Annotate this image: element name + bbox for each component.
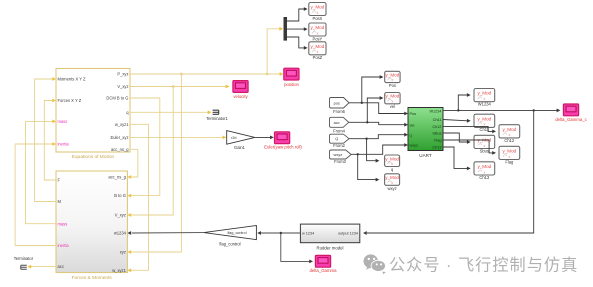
svg-text:Rudder model: Rudder model <box>317 246 344 251</box>
svg-text:acc: acc <box>334 120 340 125</box>
wire demux out 1 <box>287 9 305 21</box>
subsystem Rudder model <box>300 224 359 243</box>
svg-text:y_Mod: y_Mod <box>477 116 491 121</box>
subsystem UART <box>408 108 443 151</box>
wire acc output to Terminator <box>31 266 56 268</box>
port arrow w1234 into Forces &amp; Moments <box>127 231 131 235</box>
svg-text:Gain1: Gain1 <box>234 145 246 150</box>
to-workspace W1234 <box>474 89 495 102</box>
svg-text:y_Mod: y_Mod <box>385 175 399 180</box>
svg-text:w_xyz1: w_xyz1 <box>115 122 129 127</box>
svg-text:公众号 · 飞行控制与仿真: 公众号 · 飞行控制与仿真 <box>389 256 578 274</box>
svg-text:x: x <box>391 162 393 166</box>
scope delta_Gamma <box>315 255 330 267</box>
to-workspace wxyz <box>385 174 400 186</box>
svg-text:Pos: Pos <box>410 112 417 116</box>
svg-text:Forces X Y Z: Forces X Y Z <box>58 98 82 103</box>
svg-text:acc: acc <box>58 264 64 269</box>
to-workspace Pos <box>385 71 400 82</box>
wire Ch13 <box>443 147 468 168</box>
port arrow into Forces &amp; Moments <box>127 213 131 217</box>
wire F output to Forces XYZ input <box>44 101 56 181</box>
svg-text:output 1234: output 1234 <box>338 232 358 236</box>
svg-text:y_Mod: y_Mod <box>385 156 399 161</box>
svg-text:Euler_xyz: Euler_xyz <box>111 135 129 140</box>
wire Euler_xyz to Gain1 <box>130 136 223 138</box>
to-workspace PosZ <box>309 42 326 55</box>
svg-text:Ch12: Ch12 <box>504 138 515 143</box>
svg-text:w1234: w1234 <box>114 231 127 236</box>
wire inertia <box>15 144 56 246</box>
wire Ch11 <box>443 120 468 121</box>
svg-text:position: position <box>284 82 299 87</box>
svg-text:Pos: Pos <box>389 83 396 88</box>
svg-text:V_xyz: V_xyz <box>115 213 126 218</box>
svg-text:y_Mod: y_Mod <box>386 73 400 78</box>
svg-text:Ch11: Ch11 <box>433 118 442 122</box>
svg-text:From2: From2 <box>333 143 346 148</box>
svg-text:Ch12: Ch12 <box>432 125 441 129</box>
svg-text:Ch13: Ch13 <box>479 175 490 180</box>
from tag wxyz <box>330 150 352 159</box>
wire Flag <box>443 140 493 153</box>
svg-text:w_xyz1: w_xyz1 <box>112 268 126 273</box>
to-workspace Ch12 <box>499 125 520 138</box>
svg-text:y_Mod: y_Mod <box>311 25 325 30</box>
svg-text:x: x <box>391 181 393 185</box>
from tag Q <box>330 134 350 143</box>
wire DCM B to G feedback <box>130 98 160 196</box>
svg-text:flag_control: flag_control <box>227 231 246 235</box>
svg-text:Forces & Moments: Forces & Moments <box>72 275 113 281</box>
svg-text:velocity: velocity <box>233 94 248 99</box>
svg-text:y_Mod: y_Mod <box>477 164 491 169</box>
to-workspace Ch13 <box>474 162 495 175</box>
svg-text:wxyz: wxyz <box>410 144 419 148</box>
svg-text:y_Mod: y_Mod <box>386 94 400 99</box>
svg-text:x: x <box>483 170 485 174</box>
watermark wechat logo <box>364 254 386 274</box>
sink Terminator <box>21 265 27 269</box>
port arrow into Forces &amp; Moments <box>127 268 131 272</box>
wire wxyz to UART and wxyz workspace <box>351 145 405 154</box>
to-workspace PosX <box>309 3 326 16</box>
subsystem Forces &amp; Moments (flipped) <box>56 171 127 273</box>
svg-text:delta_Gamma_c: delta_Gamma_c <box>555 117 587 122</box>
svg-text:Flag: Flag <box>434 139 441 143</box>
svg-text:PosZ: PosZ <box>313 55 323 60</box>
svg-text:x: x <box>392 78 394 82</box>
wire pos to UART and Pos workspace <box>349 103 405 114</box>
svg-text:Sbus: Sbus <box>480 148 489 153</box>
svg-text:Moments X Y Z: Moments X Y Z <box>58 77 87 82</box>
svg-text:Equations of Motion: Equations of Motion <box>72 154 115 160</box>
wire V_xyz to velocity scope and feedback <box>130 86 229 88</box>
svg-text:w 1234: w 1234 <box>302 232 314 236</box>
demux <box>284 17 288 41</box>
wire Ch12 <box>443 126 493 131</box>
gain Gain1 (r2d) <box>227 131 255 145</box>
svg-text:W1234: W1234 <box>429 110 441 114</box>
to-workspace Sbus <box>474 135 495 148</box>
wire q to Terminator1 <box>130 111 208 113</box>
svg-text:vel: vel <box>410 123 415 127</box>
svg-text:Flag: Flag <box>505 159 514 164</box>
svg-text:Terminator1: Terminator1 <box>206 116 228 121</box>
wire demux out 3 <box>287 37 305 48</box>
svg-text:inertia: inertia <box>58 142 70 147</box>
wire P_xyz to position scope with branches <box>130 73 280 75</box>
wire Q to UART and q workspace <box>349 135 405 139</box>
svg-text:acc_ns_g: acc_ns_g <box>108 175 126 180</box>
svg-text:x: x <box>483 144 485 148</box>
port arrow into Equations of Motion <box>52 142 56 146</box>
svg-text:y_Mod: y_Mod <box>477 91 491 96</box>
svg-text:PosX: PosX <box>313 16 323 21</box>
scope Euler(yaw pitch roll) <box>275 132 290 144</box>
wire rudder output to flag_control and delta_Gamma scope <box>261 232 300 234</box>
subsystem Equations of Motion <box>56 69 130 153</box>
svg-text:y_Mod: y_Mod <box>311 44 325 49</box>
svg-text:x: x <box>483 97 485 101</box>
svg-text:y_Mod: y_Mod <box>502 148 516 153</box>
sink Terminator1 <box>213 110 219 114</box>
svg-text:wxyz: wxyz <box>388 186 397 191</box>
svg-text:Ch13: Ch13 <box>432 146 441 150</box>
svg-text:r2d: r2d <box>231 136 236 140</box>
svg-text:y_Mod: y_Mod <box>311 4 325 9</box>
gain flag_control (points left) <box>204 226 257 240</box>
to-workspace vel <box>385 93 400 104</box>
svg-text:V_xyz: V_xyz <box>117 84 128 89</box>
scope position <box>284 68 299 80</box>
svg-text:q: q <box>410 133 412 137</box>
svg-text:x: x <box>317 11 319 15</box>
from tag pos <box>330 98 350 109</box>
from tag acc <box>330 117 349 127</box>
svg-text:P_xyz: P_xyz <box>117 72 128 77</box>
svg-text:PosY: PosY <box>313 36 323 41</box>
wire acc_ns_g feedback <box>130 149 138 177</box>
to-workspace Ch11 <box>474 114 495 127</box>
wire demux out 2 <box>287 28 305 30</box>
svg-text:mass: mass <box>58 119 68 124</box>
svg-text:mass: mass <box>58 221 68 226</box>
port arrow into Forces &amp; Moments <box>127 175 131 179</box>
svg-text:x: x <box>317 31 319 35</box>
svg-text:Terminator: Terminator <box>14 256 34 261</box>
svg-text:UART: UART <box>419 153 432 158</box>
svg-text:inertia: inertia <box>58 243 70 248</box>
svg-text:wxyz: wxyz <box>334 152 343 157</box>
port arrow into Equations of Motion <box>52 120 56 124</box>
svg-text:From6: From6 <box>333 109 346 114</box>
wire flag_control to w1234 input <box>132 232 204 234</box>
port arrow into Forces &amp; Moments <box>127 194 131 198</box>
svg-text:SBus: SBus <box>432 132 441 136</box>
wire acc to UART and vel workspace <box>349 122 405 124</box>
svg-text:M: M <box>58 199 62 204</box>
port arrow into Forces &amp; Moments <box>127 250 131 254</box>
svg-text:pos: pos <box>334 100 340 105</box>
svg-text:vel: vel <box>390 104 395 109</box>
svg-text:delta_Gamma: delta_Gamma <box>310 268 338 273</box>
svg-text:From4: From4 <box>333 129 346 134</box>
svg-text:x: x <box>508 133 510 137</box>
wire W1234 run to scope and rudder <box>443 109 557 111</box>
svg-text:xyz: xyz <box>120 250 126 255</box>
svg-text:x: x <box>317 50 319 54</box>
to-workspace q <box>385 155 400 167</box>
svg-text:acc_ns_g: acc_ns_g <box>111 147 129 152</box>
wire Gain1 to Euler scope <box>255 136 271 138</box>
scope delta_Gamma_c <box>563 104 578 116</box>
port arrow into Equations of Motion <box>52 99 56 103</box>
wire w_xyz1 feedback <box>130 124 149 270</box>
svg-text:x: x <box>392 99 394 103</box>
svg-text:B to G: B to G <box>114 193 126 198</box>
wire M output to Moments XYZ input <box>35 79 56 202</box>
svg-text:DCM B to G: DCM B to G <box>106 96 128 101</box>
svg-text:Q: Q <box>335 136 338 141</box>
wire SBus <box>443 133 468 142</box>
wire mass <box>26 121 57 223</box>
svg-text:Euler(yaw pitch roll): Euler(yaw pitch roll) <box>264 145 302 150</box>
to-workspace PosY <box>309 23 326 36</box>
svg-text:From3: From3 <box>334 159 347 164</box>
svg-text:flag_control: flag_control <box>219 242 240 247</box>
to-workspace Flag <box>499 146 520 159</box>
scope velocity <box>233 81 248 93</box>
port arrow into Equations of Motion <box>52 77 56 81</box>
svg-text:W1234: W1234 <box>478 102 492 107</box>
svg-text:x: x <box>508 155 510 159</box>
svg-text:y_Mod: y_Mod <box>502 127 516 132</box>
